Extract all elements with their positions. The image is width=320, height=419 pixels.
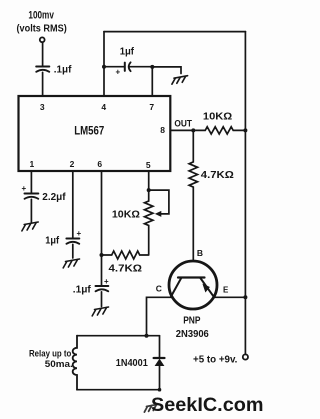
- wire C5 to ground: [101, 292, 103, 307]
- wire pin 7 up: [151, 67, 153, 96]
- wire pin 1 down: [30, 171, 32, 193]
- svg-text:4.7KΩ: 4.7KΩ: [109, 263, 143, 275]
- svg-text:LM567: LM567: [74, 124, 104, 138]
- input terminal circle: [40, 37, 45, 42]
- wire pin 2 down: [72, 171, 74, 238]
- node diode bottom junction: [158, 388, 162, 392]
- wire C1 to pin 3: [42, 72, 44, 96]
- node collector/relay junction: [145, 334, 149, 338]
- wire pin 4 up: [103, 32, 105, 96]
- resistor R1 10K: [193, 127, 245, 134]
- svg-text:B: B: [197, 248, 203, 258]
- wire top rail: [104, 31, 245, 33]
- svg-text:1μf: 1μf: [120, 46, 135, 58]
- transistor Q1 emitter arrow: [202, 284, 210, 293]
- svg-text:PNP: PNP: [183, 315, 201, 326]
- resistor R2 4.7K vertical: [189, 130, 197, 259]
- wire C4 to ground: [72, 244, 74, 258]
- potentiometer R3 wiper loop: [149, 190, 169, 214]
- node pin5 junction: [147, 188, 151, 192]
- relay top wire: [77, 335, 160, 337]
- capacitor C3 2.2uf: [22, 184, 39, 199]
- capacitor C2 1uf: [116, 62, 131, 76]
- svg-text:10KΩ: 10KΩ: [112, 208, 140, 220]
- node pin7 junction: [150, 65, 154, 69]
- svg-text:SeekIC.com: SeekIC.com: [151, 394, 264, 416]
- svg-text:1μf: 1μf: [45, 236, 59, 247]
- ground below C5: [92, 307, 108, 316]
- svg-text:.1μf: .1μf: [54, 64, 72, 76]
- potentiometer R3 10K body: [145, 190, 153, 255]
- node OUT junction: [191, 128, 195, 132]
- ground top right: [172, 76, 188, 85]
- wire pin6 to C5: [101, 255, 103, 286]
- svg-text:100mv: 100mv: [28, 9, 54, 21]
- svg-text:C: C: [156, 284, 162, 294]
- node emitter/rail junction: [243, 295, 247, 299]
- svg-text:OUT: OUT: [174, 119, 192, 129]
- watermark logo glyph: [144, 404, 158, 412]
- svg-text:1N4001: 1N4001: [116, 357, 148, 369]
- svg-text:1: 1: [30, 159, 35, 169]
- svg-text:50ma.: 50ma.: [45, 359, 73, 370]
- wire pin 6 down: [101, 171, 103, 255]
- inductor K1 relay coil: [73, 336, 77, 390]
- wire input to C1: [42, 43, 44, 66]
- capacitor C1 .1uf: [36, 67, 49, 72]
- svg-text:3: 3: [40, 102, 45, 112]
- wire C3 to ground: [30, 199, 32, 222]
- wire collector: [147, 297, 172, 335]
- wire to C2: [104, 66, 124, 68]
- wire right rail: [244, 32, 246, 355]
- transistor Q1 base bar: [178, 276, 205, 278]
- potentiometer R3 wiper arrow: [155, 211, 162, 217]
- op-amp U1 LM567 box: [19, 96, 171, 171]
- wire emitter: [214, 296, 246, 298]
- svg-text:+: +: [77, 229, 82, 238]
- transistor Q1 emitter leg: [200, 278, 214, 297]
- svg-text:2: 2: [70, 159, 75, 169]
- svg-text:2.2μf: 2.2μf: [42, 191, 66, 203]
- svg-text:E: E: [223, 286, 229, 295]
- svg-text:7: 7: [149, 102, 154, 112]
- wire pin7 node to ground: [152, 67, 181, 74]
- svg-text:10KΩ: 10KΩ: [203, 110, 232, 122]
- wire pin 8 OUT: [170, 129, 193, 131]
- transistor Q1 collector leg: [171, 278, 182, 297]
- svg-text:+: +: [116, 68, 121, 77]
- node right rail / R1 junction: [243, 128, 247, 132]
- transistor Q1 2N3906 circle: [169, 261, 217, 309]
- capacitor C5 .1uf: [96, 277, 110, 291]
- svg-text:.1μf: .1μf: [73, 284, 92, 295]
- diode D1 1N4001: [154, 336, 165, 390]
- svg-text:6: 6: [97, 159, 102, 169]
- svg-text:Relay up to: Relay up to: [29, 349, 71, 360]
- svg-text:+: +: [104, 277, 109, 286]
- relay bottom wire: [77, 389, 160, 391]
- node pin4/C2 junction: [102, 65, 106, 69]
- supply terminal circle: [243, 354, 248, 359]
- resistor R4 4.7K horizontal: [102, 251, 149, 259]
- svg-text:+: +: [22, 184, 27, 193]
- ground below C4: [63, 259, 79, 268]
- ground below C3: [22, 222, 38, 231]
- wire pin 5 down: [148, 171, 150, 190]
- svg-text:2N3906: 2N3906: [176, 328, 209, 340]
- node pin6 junction: [100, 253, 104, 257]
- svg-text:4: 4: [101, 102, 106, 112]
- svg-text:8: 8: [160, 125, 165, 135]
- svg-text:5: 5: [146, 160, 151, 170]
- capacitor C4 1uf: [66, 229, 81, 244]
- svg-text:4.7KΩ: 4.7KΩ: [201, 169, 234, 181]
- svg-text:+5 to +9v.: +5 to +9v.: [193, 353, 237, 365]
- svg-text:(volts RMS): (volts RMS): [17, 23, 67, 35]
- wire C2 to pin7 node: [129, 66, 152, 68]
